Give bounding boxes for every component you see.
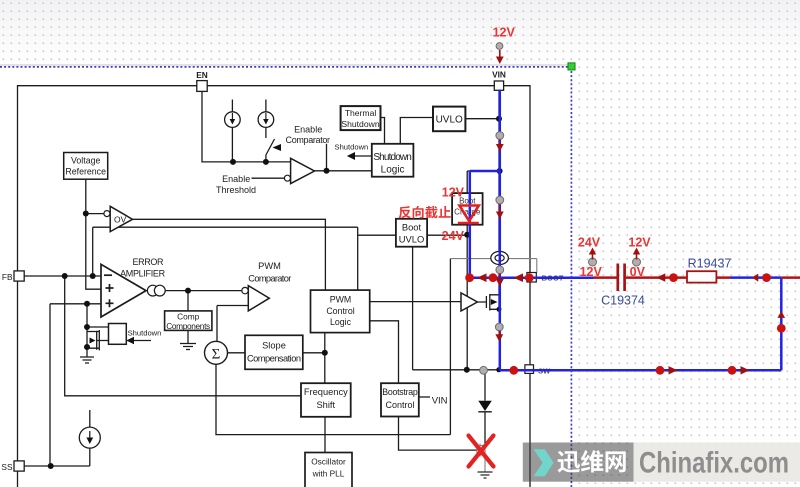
- svg-text:Voltage: Voltage: [71, 156, 100, 166]
- svg-text:UVLO: UVLO: [399, 234, 425, 245]
- svg-text:UVLO: UVLO: [436, 114, 463, 125]
- svg-text:Σ: Σ: [212, 347, 221, 363]
- svg-text:Enable: Enable: [222, 174, 250, 184]
- svg-text:VIN: VIN: [432, 395, 448, 406]
- svg-text:Slope: Slope: [262, 341, 286, 351]
- svg-text:Components: Components: [166, 321, 210, 331]
- svg-text:Bootstrap: Bootstrap: [382, 387, 418, 397]
- svg-text:Comp: Comp: [177, 312, 200, 322]
- svg-text:Thermal: Thermal: [345, 108, 377, 118]
- svg-text:SS: SS: [1, 462, 13, 472]
- svg-text:PWM: PWM: [258, 261, 281, 271]
- svg-text:C19374: C19374: [601, 293, 645, 307]
- svg-text:Shift: Shift: [316, 400, 335, 410]
- svg-text:OV: OV: [114, 215, 127, 225]
- svg-text:Logic: Logic: [330, 317, 352, 327]
- svg-text:Threshold: Threshold: [216, 185, 256, 195]
- svg-text:R19437: R19437: [688, 256, 732, 270]
- svg-text:Comparator: Comparator: [248, 274, 291, 284]
- svg-text:12V: 12V: [442, 185, 465, 199]
- svg-text:Shutdown: Shutdown: [128, 329, 162, 338]
- svg-text:Chinafix.com: Chinafix.com: [639, 447, 789, 480]
- svg-text:PWM: PWM: [330, 295, 352, 305]
- svg-text:Frequency: Frequency: [304, 387, 348, 397]
- svg-text:Compensation: Compensation: [247, 354, 301, 364]
- svg-text:Control: Control: [385, 400, 414, 410]
- svg-text:Enable: Enable: [294, 125, 322, 135]
- svg-text:AMPLIFIER: AMPLIFIER: [120, 269, 166, 279]
- svg-text:VIN: VIN: [492, 70, 506, 80]
- svg-text:12V: 12V: [580, 265, 603, 279]
- svg-text:Boot: Boot: [402, 221, 422, 232]
- svg-text:Shutdown: Shutdown: [341, 119, 379, 129]
- svg-text:Oscillator: Oscillator: [311, 457, 346, 467]
- svg-text:Control: Control: [326, 306, 354, 316]
- svg-text:12V: 12V: [628, 236, 651, 250]
- svg-text:FB: FB: [2, 272, 13, 282]
- svg-text:Comparator: Comparator: [286, 135, 331, 145]
- svg-text:Logic: Logic: [381, 165, 405, 176]
- svg-text:24V: 24V: [442, 229, 465, 243]
- svg-text:ERROR: ERROR: [133, 257, 165, 267]
- svg-text:0V: 0V: [630, 265, 646, 279]
- svg-text:24V: 24V: [578, 236, 601, 250]
- svg-text:Shutdown: Shutdown: [373, 152, 412, 163]
- svg-text:12V: 12V: [493, 25, 516, 39]
- svg-text:EN: EN: [196, 70, 208, 80]
- svg-text:with PLL: with PLL: [312, 469, 345, 479]
- svg-text:Reference: Reference: [65, 167, 106, 177]
- svg-text:Shutdown: Shutdown: [335, 142, 369, 151]
